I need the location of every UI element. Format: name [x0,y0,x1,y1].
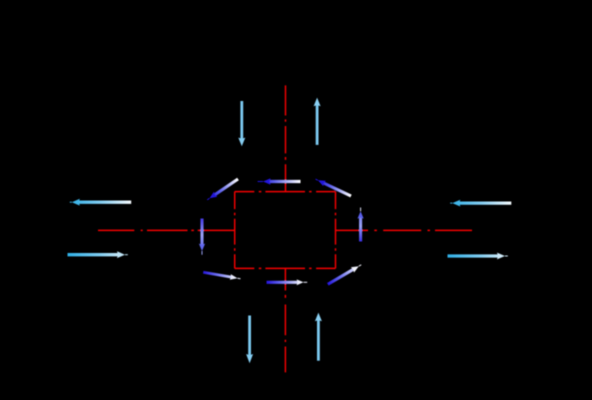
circulating arrow top-left corner (south-west-bound) [207,179,238,200]
approach arrow north outbound (up) [314,98,321,145]
intersection box top edge [235,191,336,193]
approach arrow east inbound (left) [450,200,511,207]
approach arrow west inbound (left) [70,199,131,206]
centerline vertical bottom [284,268,286,372]
intersection box bottom edge [235,267,336,269]
circulating arrow bottom-right corner (north-east-bound) [328,265,361,285]
circulating arrow top (west-bound) [258,178,301,184]
circulating arrow left (south-bound) [199,219,205,255]
circulating arrow top-right corner (north-west-bound) [316,179,352,196]
centerline horizontal left [98,229,235,231]
circulating arrow right (north-bound) [358,208,364,242]
centerline horizontal right [336,229,473,231]
approach arrow south outbound (down) [246,316,253,364]
circulating arrow bottom-left corner (south-east-bound) [203,272,240,280]
approach arrow south inbound (up) [315,313,322,361]
intersection box left edge [234,192,236,269]
circulating arrow bottom (east-bound) [267,279,308,285]
approach arrow west outbound (right) [68,251,128,258]
intersection box right edge [335,192,337,269]
approach arrow east outbound (right) [448,253,508,260]
approach arrow north inbound (down) [238,101,245,146]
centerline vertical top [285,85,287,191]
